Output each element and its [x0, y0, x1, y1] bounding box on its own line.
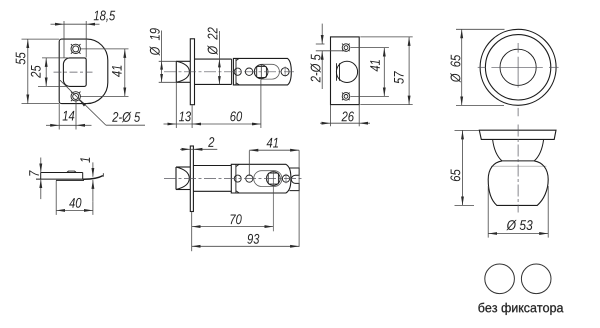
- dia53 extension lines: [487, 186, 489, 238]
- case outline: [233, 58, 291, 85]
- screw hole bottom: [71, 92, 81, 102]
- bolt nose arc: [176, 167, 189, 190]
- label 55: [16, 52, 26, 64]
- neck left: [493, 139, 502, 161]
- strike plate outline: [331, 37, 360, 105]
- rose plate: [479, 130, 556, 139]
- dia65 extension lines: [456, 28, 505, 30]
- label 41: [267, 138, 279, 148]
- retainer tail: [290, 168, 300, 191]
- case outline: [231, 164, 291, 193]
- dim 40 line: [56, 209, 93, 211]
- VIEW D: knob side: [450, 125, 556, 238]
- screw hole top: [71, 44, 81, 54]
- neck right: [534, 139, 543, 161]
- spindle square: [257, 66, 267, 77]
- tab bump: [67, 171, 76, 172]
- label 2: [208, 137, 214, 147]
- VIEW E: plate profile: [29, 158, 103, 215]
- VIEW C: strike plate: [310, 24, 412, 127]
- case left inner line: [235, 58, 237, 85]
- dim 25 extension lines: [42, 57, 69, 59]
- label 25: [31, 65, 41, 78]
- case hole 2: [245, 68, 252, 75]
- VIEW B: knob front: [450, 29, 558, 116]
- tail end tick: [102, 173, 104, 177]
- screw hole bottom: [342, 93, 350, 101]
- tube bottom edge: [195, 83, 232, 85]
- label 2-O5: [112, 112, 140, 122]
- dia19 edge extensions: [159, 60, 177, 62]
- bar top edge: [41, 172, 83, 174]
- dim 1 arrows: [92, 162, 94, 176]
- dim 40 extension lines: [55, 181, 57, 215]
- dia22 dimension line: [218, 31, 220, 84]
- faceplate extension down: [191, 212, 193, 252]
- option circle left: [485, 264, 515, 294]
- parting line: [491, 165, 546, 167]
- knob inner circle: [500, 49, 536, 85]
- latch hole circle: [336, 61, 357, 82]
- VIEW F: latch bottom: [164, 137, 303, 251]
- dim 41 extension lines: [248, 151, 250, 176]
- dim 14 extension lines: [58, 104, 60, 130]
- dim 2-O5 extension lines: [316, 43, 325, 45]
- case chamfer marks: [236, 164, 239, 166]
- screw hole top: [342, 44, 350, 52]
- faceplate outline: [59, 39, 108, 104]
- label dia19: [150, 28, 160, 56]
- label 18,5: [94, 10, 116, 22]
- tube bottom edge: [193, 190, 231, 192]
- dim 57 line: [408, 37, 410, 105]
- label 26: [342, 112, 355, 122]
- dim 2 line with outside arrows: [180, 148, 190, 150]
- spindle slot stadium: [254, 171, 282, 187]
- dia53 dimension line: [488, 233, 548, 235]
- VIEW A: faceplate front: [16, 10, 145, 129]
- dia19 dimension line: [161, 31, 163, 83]
- dim 26 line with outside arrows: [320, 122, 331, 124]
- VIEW T: latch top: [150, 27, 294, 128]
- option circle right: [521, 264, 551, 294]
- dim 13 line with outside arrow: [164, 123, 177, 125]
- dim 70 line: [192, 226, 274, 228]
- dim 55 line: [27, 39, 29, 103]
- dim 65 extension lines: [455, 129, 480, 131]
- dim 41 line: [124, 49, 126, 97]
- dim 14 line with outside arrows: [46, 124, 59, 126]
- caption: [478, 303, 563, 315]
- dim 25 line: [45, 58, 47, 87]
- spindle circle: [254, 65, 268, 79]
- label 13: [179, 111, 191, 121]
- case hole 2: [246, 175, 253, 182]
- label dia53: [506, 220, 532, 230]
- case hole 1: [234, 175, 241, 182]
- neck bottom line: [502, 160, 534, 162]
- tube top edge: [193, 165, 231, 167]
- center lines: [478, 43, 559, 116]
- bolt top edge: [176, 60, 190, 62]
- center line: [164, 178, 303, 180]
- spindle square: [268, 173, 278, 184]
- dim 65 line: [462, 130, 464, 205]
- dim 41 line: [249, 149, 299, 151]
- spindle center line down: [260, 64, 262, 80]
- faceplate edge-on: [190, 39, 194, 105]
- label 41: [370, 60, 380, 71]
- label 7: [29, 170, 39, 176]
- label 57: [394, 71, 404, 84]
- knob ring circle: [485, 35, 550, 100]
- bar bottom edge: [36, 178, 83, 180]
- bolt bottom edge: [176, 189, 190, 191]
- case hole 3: [281, 68, 289, 76]
- dim 7 arrows: [40, 158, 42, 173]
- lower plate line: [56, 179, 84, 181]
- label 14: [63, 111, 75, 121]
- dim 2-O5 arrows: [321, 24, 323, 44]
- dim 18,5 extension lines: [63, 21, 65, 58]
- bent tail: [83, 176, 103, 180]
- case left inner line: [235, 164, 237, 193]
- VIEW G: option circles: [478, 264, 563, 315]
- spindle circle: [266, 172, 280, 186]
- dim 93 line: [192, 245, 299, 247]
- label 41: [112, 66, 122, 78]
- dia65 dimension line: [461, 29, 463, 105]
- dim 41 line: [383, 48, 385, 97]
- knob ball: [488, 161, 548, 206]
- label 1: [80, 158, 90, 163]
- dim 13/60 extension lines: [175, 82, 177, 128]
- case hole 1: [234, 68, 241, 75]
- bar right end: [82, 173, 84, 180]
- spindle slot stadium: [255, 64, 280, 79]
- bolt tip face: [175, 167, 177, 190]
- label dia65: [450, 55, 460, 83]
- label 2-O5: [310, 54, 320, 82]
- dim 55 extension lines: [22, 38, 60, 40]
- latch hole: [63, 58, 86, 87]
- tube end: [231, 59, 233, 84]
- label 40: [69, 198, 81, 208]
- bolt flat lines: [336, 63, 338, 80]
- label dia22: [207, 27, 217, 55]
- label 93: [247, 234, 259, 244]
- bolt tip face: [175, 61, 177, 82]
- knob outer circle: [480, 29, 556, 105]
- dim 57 extension lines: [360, 36, 412, 38]
- tube top edge: [195, 58, 232, 60]
- faceplate edge-on: [190, 146, 193, 212]
- bolt bottom edge: [176, 81, 190, 83]
- case hole 3: [282, 175, 289, 182]
- dim 18,5 line with outside arrows: [51, 23, 65, 25]
- label 60: [230, 111, 242, 121]
- dim 26 extension lines: [330, 105, 332, 127]
- label 65: [450, 169, 460, 181]
- bolt top edge: [176, 166, 190, 168]
- center line: [517, 125, 519, 213]
- dim 60 line: [192, 123, 261, 125]
- bolt nose arc: [176, 61, 189, 82]
- label 70: [231, 214, 242, 224]
- bar left end: [40, 173, 42, 180]
- spindle center extension down: [272, 171, 274, 232]
- center line of latch hole: [54, 71, 93, 73]
- dim 41 extension lines: [81, 48, 129, 50]
- leader 2-O5: [60, 80, 106, 125]
- center line: [164, 71, 294, 73]
- case chamfer marks: [236, 58, 239, 60]
- dim 41 extension lines: [351, 47, 389, 49]
